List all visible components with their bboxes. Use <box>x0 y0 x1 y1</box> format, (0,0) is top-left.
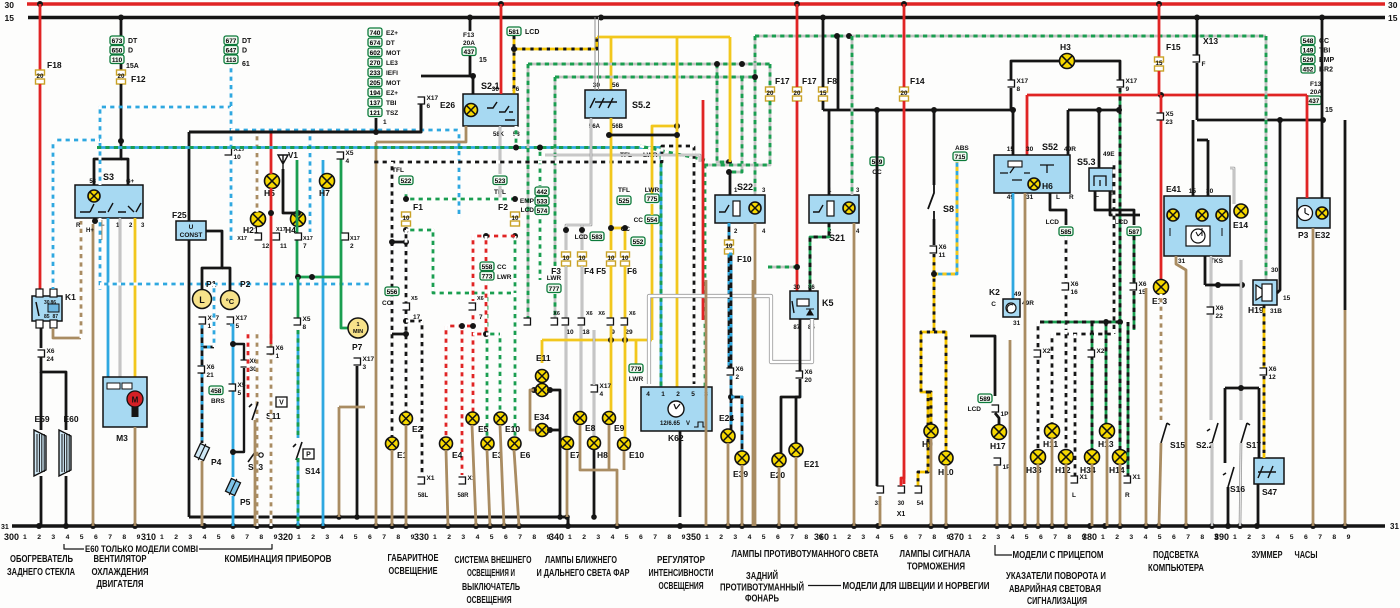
svg-text:4: 4 <box>203 534 207 541</box>
rw E4 drop <box>445 326 448 437</box>
svg-text:РЕГУЛЯТОР: РЕГУЛЯТОР <box>657 555 705 566</box>
svg-text:H17: H17 <box>990 441 1006 451</box>
red F15 to horiz <box>1158 71 1161 95</box>
svg-text:113: 113 <box>226 57 237 64</box>
svg-text:2: 2 <box>1247 534 1251 541</box>
brown col 1010 <box>1009 340 1012 526</box>
svg-text:437: 437 <box>464 49 475 56</box>
fuse F10 <box>725 240 734 245</box>
brown-white to H21 <box>256 132 259 212</box>
blue-white dashed harness right <box>230 107 233 147</box>
svg-text:7: 7 <box>245 534 249 541</box>
svg-text:H34: H34 <box>1080 465 1096 475</box>
gb to turn lamps R <box>1133 291 1136 330</box>
svg-text:4: 4 <box>600 391 604 398</box>
svg-text:320: 320 <box>278 532 293 543</box>
bus 30 (battery line) <box>27 2 1385 6</box>
fuse F4 <box>578 252 587 257</box>
gb H13 feed <box>1105 322 1108 424</box>
fuse F18 <box>36 70 45 75</box>
svg-text:H6: H6 <box>1042 181 1053 191</box>
wire 58K grey down <box>499 126 502 174</box>
svg-text:2: 2 <box>982 534 986 541</box>
brown H10 gnd <box>945 465 948 526</box>
svg-text:15A: 15A <box>126 63 139 70</box>
svg-text:6: 6 <box>231 534 235 541</box>
svg-text:9: 9 <box>947 534 951 541</box>
gw horiz 334 <box>486 333 500 336</box>
lamp E13 <box>1154 280 1169 295</box>
svg-text:E21: E21 <box>804 459 819 469</box>
connector X1-54 <box>915 486 922 493</box>
wire S3 top bus lower <box>188 240 191 517</box>
svg-text:K62: K62 <box>668 433 684 443</box>
gb down long <box>1119 110 1122 320</box>
svg-text:ЛАМПЫ СИГНАЛА: ЛАМПЫ СИГНАЛА <box>900 549 971 560</box>
svg-text:6: 6 <box>1172 534 1176 541</box>
svg-text:8: 8 <box>259 534 263 541</box>
svg-text:585: 585 <box>1061 229 1072 236</box>
svg-text:7: 7 <box>790 534 794 541</box>
black horiz 120 <box>1197 119 1323 122</box>
rw E4 branch <box>446 325 473 328</box>
svg-text:LWR: LWR <box>497 274 512 281</box>
svg-text:677: 677 <box>226 38 237 45</box>
blue-white k1 riser <box>53 139 100 142</box>
wire X17-6 left black <box>420 104 423 132</box>
svg-text:8: 8 <box>303 324 307 331</box>
svg-text:ПОДСВЕТКА: ПОДСВЕТКА <box>1153 550 1199 561</box>
svg-text:581: 581 <box>509 29 520 36</box>
brown E10 gnd <box>500 425 504 526</box>
svg-text:3: 3 <box>596 534 600 541</box>
svg-text:R: R <box>1069 194 1074 201</box>
wire S3-3 yellow to M3 <box>134 218 137 378</box>
blue-white harness drop <box>458 130 461 218</box>
svg-text:X6: X6 <box>1139 281 1147 288</box>
svg-text:H12: H12 <box>1055 465 1071 475</box>
svg-text:20: 20 <box>794 90 801 97</box>
svg-text:X6: X6 <box>477 296 484 302</box>
svg-text:X13: X13 <box>1203 36 1218 46</box>
connector X17-3 <box>354 358 361 365</box>
wire S3 minus brown <box>100 220 103 240</box>
brown E24 gnd <box>727 443 730 526</box>
black H19-15 <box>1277 120 1280 293</box>
svg-text:1: 1 <box>433 534 437 541</box>
black drop E41 <box>1204 256 1207 285</box>
svg-text:TBI: TBI <box>386 100 397 107</box>
connector X17-11 <box>273 233 280 240</box>
svg-text:12/6.65: 12/6.65 <box>660 421 681 427</box>
bus 15 (ignition line) <box>28 16 1385 20</box>
svg-text:5: 5 <box>236 323 240 330</box>
svg-text:2: 2 <box>37 534 41 541</box>
bb E39 branch <box>731 397 742 451</box>
svg-text:30: 30 <box>1026 146 1034 153</box>
svg-text:330: 330 <box>414 532 429 543</box>
black H17 feed <box>970 336 995 396</box>
svg-text:ВЕНТИЛЯТОР: ВЕНТИЛЯТОР <box>94 554 147 565</box>
svg-text:7: 7 <box>303 243 307 250</box>
svg-text:5: 5 <box>80 534 84 541</box>
svg-text:X6: X6 <box>805 369 813 376</box>
svg-text:9: 9 <box>682 534 686 541</box>
svg-text:ТОРМОЖЕНИЯ: ТОРМОЖЕНИЯ <box>907 562 965 573</box>
gb X17-9 down <box>1119 88 1122 110</box>
connector X6-15 <box>1130 283 1137 290</box>
blue-white below S3 <box>99 218 102 290</box>
svg-text:S21: S21 <box>829 233 845 243</box>
svg-text:P3: P3 <box>1298 230 1309 240</box>
red F14 down <box>903 101 906 484</box>
svg-text:КОМБИНАЦИЯ ПРИБОРОВ: КОМБИНАЦИЯ ПРИБОРОВ <box>225 554 332 565</box>
svg-text:1: 1 <box>208 323 212 330</box>
svg-text:31B: 31B <box>1270 308 1282 315</box>
svg-text:58L: 58L <box>418 493 429 499</box>
svg-text:1: 1 <box>356 322 359 328</box>
rw X1-58R drop <box>461 326 464 475</box>
svg-text:H+: H+ <box>86 228 94 234</box>
svg-text:20: 20 <box>805 377 813 384</box>
svg-text:85: 85 <box>44 314 50 320</box>
caption connector lines <box>64 544 84 549</box>
lamp E6 <box>508 437 521 450</box>
svg-text:E26: E26 <box>440 100 455 110</box>
brown below X1-31 <box>879 496 882 526</box>
svg-text:4: 4 <box>340 534 344 541</box>
svg-text:F8: F8 <box>827 76 837 86</box>
black H3 right <box>1074 61 1120 80</box>
svg-text:777: 777 <box>549 286 560 293</box>
brown col 753 <box>752 280 755 526</box>
svg-text:ФОНАРЬ: ФОНАРЬ <box>745 594 779 605</box>
svg-text:X1: X1 <box>1133 474 1141 481</box>
svg-text:L: L <box>1056 194 1060 201</box>
svg-text:1P: 1P <box>1001 411 1010 418</box>
light switch S2.1 with lamp E26 <box>463 94 518 126</box>
lamp E1 <box>386 437 399 450</box>
svg-text:TFL: TFL <box>618 187 630 194</box>
relay K5 <box>790 291 818 319</box>
svg-text:310: 310 <box>141 532 156 543</box>
svg-text:И ДАЛЬНЕГО СВЕТА ФАР: И ДАЛЬНЕГО СВЕТА ФАР <box>537 568 630 579</box>
wire blue instrument long <box>322 160 325 526</box>
gb H34 feed <box>1091 322 1094 450</box>
connector X17-8 <box>1008 80 1015 87</box>
connector X6-2 <box>727 368 734 375</box>
black X13 stub <box>1196 17 1199 55</box>
gauge P1 <box>193 290 212 309</box>
svg-text:556: 556 <box>387 289 398 296</box>
junction on 15 at 1322 <box>1319 15 1325 21</box>
wire 437 black down <box>421 56 470 76</box>
svg-text:X17: X17 <box>600 383 612 390</box>
lamp E7 <box>561 437 574 450</box>
rw below X6-7 <box>472 311 475 412</box>
lamp E34 <box>536 424 549 437</box>
svg-text:MOT: MOT <box>386 80 400 87</box>
brown S22-4 <box>754 223 757 526</box>
svg-text:3: 3 <box>188 534 192 541</box>
grey TKS down <box>1210 256 1213 307</box>
fuse F17b <box>793 87 802 92</box>
code 556 CC 558 773 <box>385 287 399 296</box>
code 589 LCD <box>978 394 992 403</box>
connector X6-24 <box>38 350 45 357</box>
black S22-1 <box>729 172 732 195</box>
svg-text:R: R <box>1125 492 1130 499</box>
connector X17-1 under P1 <box>199 317 206 324</box>
svg-text:D: D <box>128 48 133 55</box>
wire S3-1 blue to M3 <box>107 218 110 378</box>
svg-text:525: 525 <box>619 198 630 205</box>
svg-text:1: 1 <box>276 353 280 360</box>
yellow F6 riser <box>624 228 627 250</box>
svg-text:DT: DT <box>386 40 395 47</box>
connector X1-L <box>1071 476 1078 483</box>
fuse F3 <box>562 252 571 257</box>
svg-text:58: 58 <box>89 179 96 185</box>
bw F1 drop <box>391 162 394 437</box>
turn switch S5.3 <box>1089 168 1113 191</box>
wire 522 to green <box>405 190 408 199</box>
gg harness upper <box>528 63 698 66</box>
wire F12 to S3 <box>94 84 121 186</box>
svg-text:K2: K2 <box>989 287 1000 297</box>
svg-text:X1: X1 <box>897 511 906 518</box>
yellow long right <box>676 37 679 388</box>
svg-text:21: 21 <box>207 372 215 379</box>
svg-text:СИГНАЛИЗАЦИЯ: СИГНАЛИЗАЦИЯ <box>1027 596 1087 607</box>
connector X1-R <box>1124 476 1131 483</box>
switch S2.2 <box>1207 423 1218 443</box>
svg-text:V: V <box>279 400 284 407</box>
svg-text:673: 673 <box>112 38 123 45</box>
connector X17-10 <box>225 148 232 155</box>
green-white y199 <box>406 198 515 201</box>
lamp E41b <box>1196 209 1208 221</box>
svg-text:X6: X6 <box>1269 366 1277 373</box>
yellow 775 feed <box>652 126 677 194</box>
gw loop <box>406 230 515 293</box>
svg-text:20: 20 <box>901 90 908 97</box>
svg-text:X2: X2 <box>1043 348 1051 355</box>
svg-text:30: 30 <box>492 86 500 93</box>
grey F3 down <box>565 266 568 318</box>
bb E24/E39 split <box>730 376 733 430</box>
wire 58K grey2 <box>499 186 502 199</box>
svg-text:9: 9 <box>819 534 823 541</box>
bw X1-58L branch <box>406 320 422 323</box>
svg-text:X5: X5 <box>1166 111 1174 118</box>
switch S5.2 <box>585 90 626 118</box>
svg-text:9: 9 <box>1082 534 1086 541</box>
connector X1-30 <box>898 486 905 493</box>
lamp H21 <box>251 212 266 227</box>
svg-text:CC: CC <box>382 300 392 307</box>
svg-text:7: 7 <box>1186 534 1190 541</box>
connector gg-528 <box>524 318 531 325</box>
bw H12 feed <box>1065 330 1068 450</box>
svg-text:8: 8 <box>1067 534 1071 541</box>
connector X6-16 <box>1062 283 1069 290</box>
svg-text:S3: S3 <box>103 172 114 182</box>
yellow E11 feed <box>541 340 544 363</box>
svg-text:8: 8 <box>532 534 536 541</box>
svg-text:6: 6 <box>1304 534 1308 541</box>
connector X17-12 <box>255 233 262 240</box>
rw E5 drop <box>472 236 475 301</box>
svg-text:61: 61 <box>242 61 250 68</box>
svg-text:ПРОТИВОТУМАННЫЙ: ПРОТИВОТУМАННЫЙ <box>720 581 804 594</box>
svg-text:K1: K1 <box>65 292 76 302</box>
svg-text:9: 9 <box>274 534 278 541</box>
lamp H12 <box>1059 450 1074 465</box>
wire red-white to S11 <box>247 330 250 399</box>
svg-text:ОСВЕЩЕНИЯ: ОСВЕЩЕНИЯ <box>659 581 704 592</box>
svg-text:H5: H5 <box>264 188 275 198</box>
fan motor M3 <box>103 377 147 427</box>
svg-text:X6: X6 <box>1216 305 1224 312</box>
svg-text:Е60 ТОЛЬКО МОДЕЛИ COMBI: Е60 ТОЛЬКО МОДЕЛИ COMBI <box>85 544 198 554</box>
black E41-15 feed <box>1192 120 1195 196</box>
wire yellow to S5.2-56 <box>610 37 613 90</box>
svg-text:F5: F5 <box>596 266 606 276</box>
wire P4 ground brown <box>201 461 204 526</box>
gg stub1 <box>717 64 729 162</box>
svg-text:30: 30 <box>898 501 905 507</box>
code 522 TFL <box>399 176 413 185</box>
codes 583/552 <box>631 237 645 246</box>
svg-text:P2: P2 <box>240 279 251 289</box>
green to P7 <box>341 277 348 328</box>
svg-text:9: 9 <box>1126 86 1130 93</box>
svg-text:5: 5 <box>1025 534 1029 541</box>
svg-text:CC: CC <box>497 264 507 271</box>
blue-white below X17-10 <box>230 156 233 240</box>
wire yellow top bus <box>597 36 730 39</box>
svg-text:LCD: LCD <box>525 29 539 36</box>
svg-text:54: 54 <box>917 501 924 507</box>
wire P4 feed <box>201 347 204 443</box>
gb 587 down <box>1133 236 1136 283</box>
svg-text:H33: H33 <box>1026 465 1042 475</box>
svg-text:H8: H8 <box>597 450 608 460</box>
svg-text:4: 4 <box>346 158 350 165</box>
wire S11 down brown <box>254 420 257 526</box>
red bus30 to F17b <box>796 4 799 87</box>
svg-text:4: 4 <box>748 534 752 541</box>
gg horiz 2 <box>698 63 770 66</box>
svg-text:20A: 20A <box>1310 89 1322 96</box>
svg-text:S8: S8 <box>943 204 954 214</box>
brown H13 gnd <box>1106 438 1109 526</box>
bw to turn lamps L <box>1065 291 1068 330</box>
svg-text:121: 121 <box>370 110 381 117</box>
svg-text:F6: F6 <box>627 266 637 276</box>
wire P2 blue down <box>230 325 233 477</box>
gg to S21-3 <box>851 36 854 195</box>
svg-text:X5: X5 <box>346 150 354 157</box>
svg-text:49E: 49E <box>1103 151 1115 158</box>
svg-text:U: U <box>189 224 194 231</box>
yb to S47 <box>1263 376 1266 458</box>
grey below X6-22 <box>1210 315 1213 420</box>
sensor P5 <box>225 477 242 498</box>
rw 558 drop <box>485 236 488 261</box>
svg-text:3: 3 <box>363 364 367 371</box>
brown E10b gnd <box>623 451 626 470</box>
svg-text:10: 10 <box>608 255 615 262</box>
svg-text:X17: X17 <box>303 236 313 242</box>
wire E59 ground <box>40 476 43 526</box>
brown E3 gnd <box>487 450 490 526</box>
svg-text:3: 3 <box>461 534 465 541</box>
svg-text:8: 8 <box>1017 86 1021 93</box>
gb horiz mid <box>1040 321 1120 324</box>
wire to E59 <box>40 372 43 430</box>
svg-text:7: 7 <box>1318 534 1322 541</box>
gw F2 down <box>514 236 517 293</box>
brown P3 gnd <box>1312 228 1315 526</box>
wire brown S3 ground <box>92 224 95 526</box>
junction on 15 at 1197 <box>1194 15 1200 21</box>
svg-text:LWR: LWR <box>629 376 644 383</box>
brown H11 gnd <box>1051 438 1054 526</box>
lamp in S21 <box>843 202 855 214</box>
gg horiz top <box>755 35 1266 38</box>
svg-text:E11: E11 <box>536 353 551 363</box>
svg-text:10: 10 <box>512 215 519 222</box>
svg-text:30: 30 <box>1271 267 1279 274</box>
svg-text:P: P <box>306 452 311 459</box>
brown E39 gnd <box>741 465 744 526</box>
black horiz 388 <box>1225 387 1259 390</box>
svg-text:602: 602 <box>370 50 381 57</box>
svg-text:H19: H19 <box>1248 305 1264 315</box>
svg-text:300: 300 <box>4 532 19 543</box>
bw H33 feed <box>1037 322 1040 450</box>
svg-text:X6: X6 <box>276 345 284 352</box>
svg-text:58R: 58R <box>457 493 469 499</box>
connector X2-R <box>1088 350 1095 357</box>
svg-text:LCD: LCD <box>1046 219 1060 226</box>
grey horiz <box>545 155 700 162</box>
black to S21-1 <box>828 110 831 195</box>
svg-text:F10: F10 <box>737 254 752 264</box>
yellow E10b feed <box>624 326 627 340</box>
svg-text:8: 8 <box>667 534 671 541</box>
svg-text:1: 1 <box>160 534 164 541</box>
wire 58 green down <box>515 126 518 147</box>
black-white horiz bus <box>370 146 694 384</box>
svg-text:437: 437 <box>1309 98 1320 105</box>
svg-text:6: 6 <box>904 534 908 541</box>
black E11 E34 out <box>550 390 560 517</box>
svg-text:674: 674 <box>370 40 381 47</box>
svg-text:4: 4 <box>1011 534 1015 541</box>
code 581 LCD <box>507 27 521 36</box>
junction on 15 at 601 <box>598 15 604 21</box>
svg-text:9: 9 <box>1347 534 1351 541</box>
svg-text:31: 31 <box>1 524 9 531</box>
svg-text:779: 779 <box>631 366 642 373</box>
svg-text:5: 5 <box>1290 534 1294 541</box>
svg-text:6: 6 <box>1039 534 1043 541</box>
fuse F17a <box>766 87 775 92</box>
sensor P4 <box>194 442 211 463</box>
